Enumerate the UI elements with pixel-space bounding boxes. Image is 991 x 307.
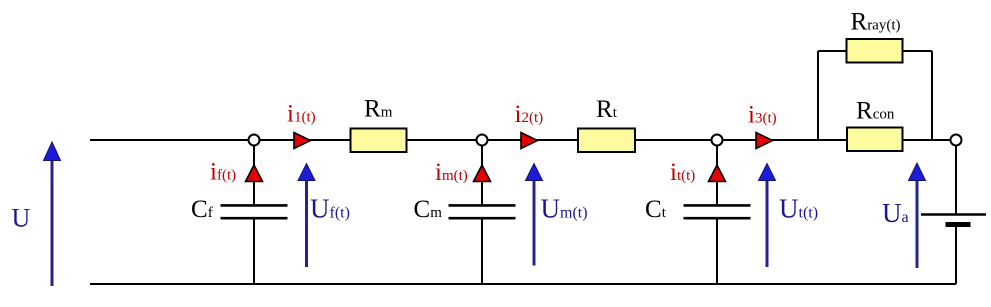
wire Ct branch lower — [716, 220, 718, 285]
wire battery lower — [955, 226, 957, 284]
voltage arrow Uf(t) — [298, 164, 315, 268]
wire Cf branch lower — [253, 220, 255, 285]
current arrow im(t) — [474, 165, 491, 182]
resistor Rm — [351, 129, 407, 153]
wire bottom rail — [90, 283, 956, 285]
voltage arrow Um(t) — [526, 164, 543, 266]
capacitor Cf plates — [221, 205, 288, 218]
wire parallel branch left riser — [817, 51, 819, 140]
wire parallel branch top — [818, 50, 932, 52]
node 4 output terminal — [951, 135, 962, 146]
voltage arrow U — [44, 142, 61, 286]
resistor Rcon — [847, 128, 903, 152]
current arrow i3(t) — [756, 133, 773, 149]
capacitor Cm plates — [449, 205, 516, 218]
wire parallel branch right riser — [931, 51, 933, 140]
wire battery upper — [955, 145, 957, 214]
resistor Rray(t) — [847, 39, 903, 63]
resistor Rt — [578, 129, 635, 153]
wire Cm branch upper — [481, 145, 483, 205]
node 2 — [477, 135, 488, 146]
current arrow i1(t) — [294, 133, 311, 149]
wire Cm branch lower — [481, 220, 483, 285]
battery Ua source plates — [921, 215, 986, 225]
svg-text:U: U — [12, 204, 31, 233]
current arrow i2(t) — [521, 133, 538, 149]
wire top rail — [90, 139, 956, 141]
wire Ct branch upper — [716, 145, 718, 205]
node 3 — [712, 135, 723, 146]
current arrow it(t) — [709, 165, 726, 182]
voltage arrow Ua — [909, 163, 926, 268]
voltage arrow Ut(t) — [759, 164, 776, 268]
capacitor Ct plates — [684, 205, 751, 218]
current arrow if(t) — [246, 165, 263, 182]
node 1 — [249, 135, 260, 146]
wire Cf branch upper — [253, 145, 255, 205]
